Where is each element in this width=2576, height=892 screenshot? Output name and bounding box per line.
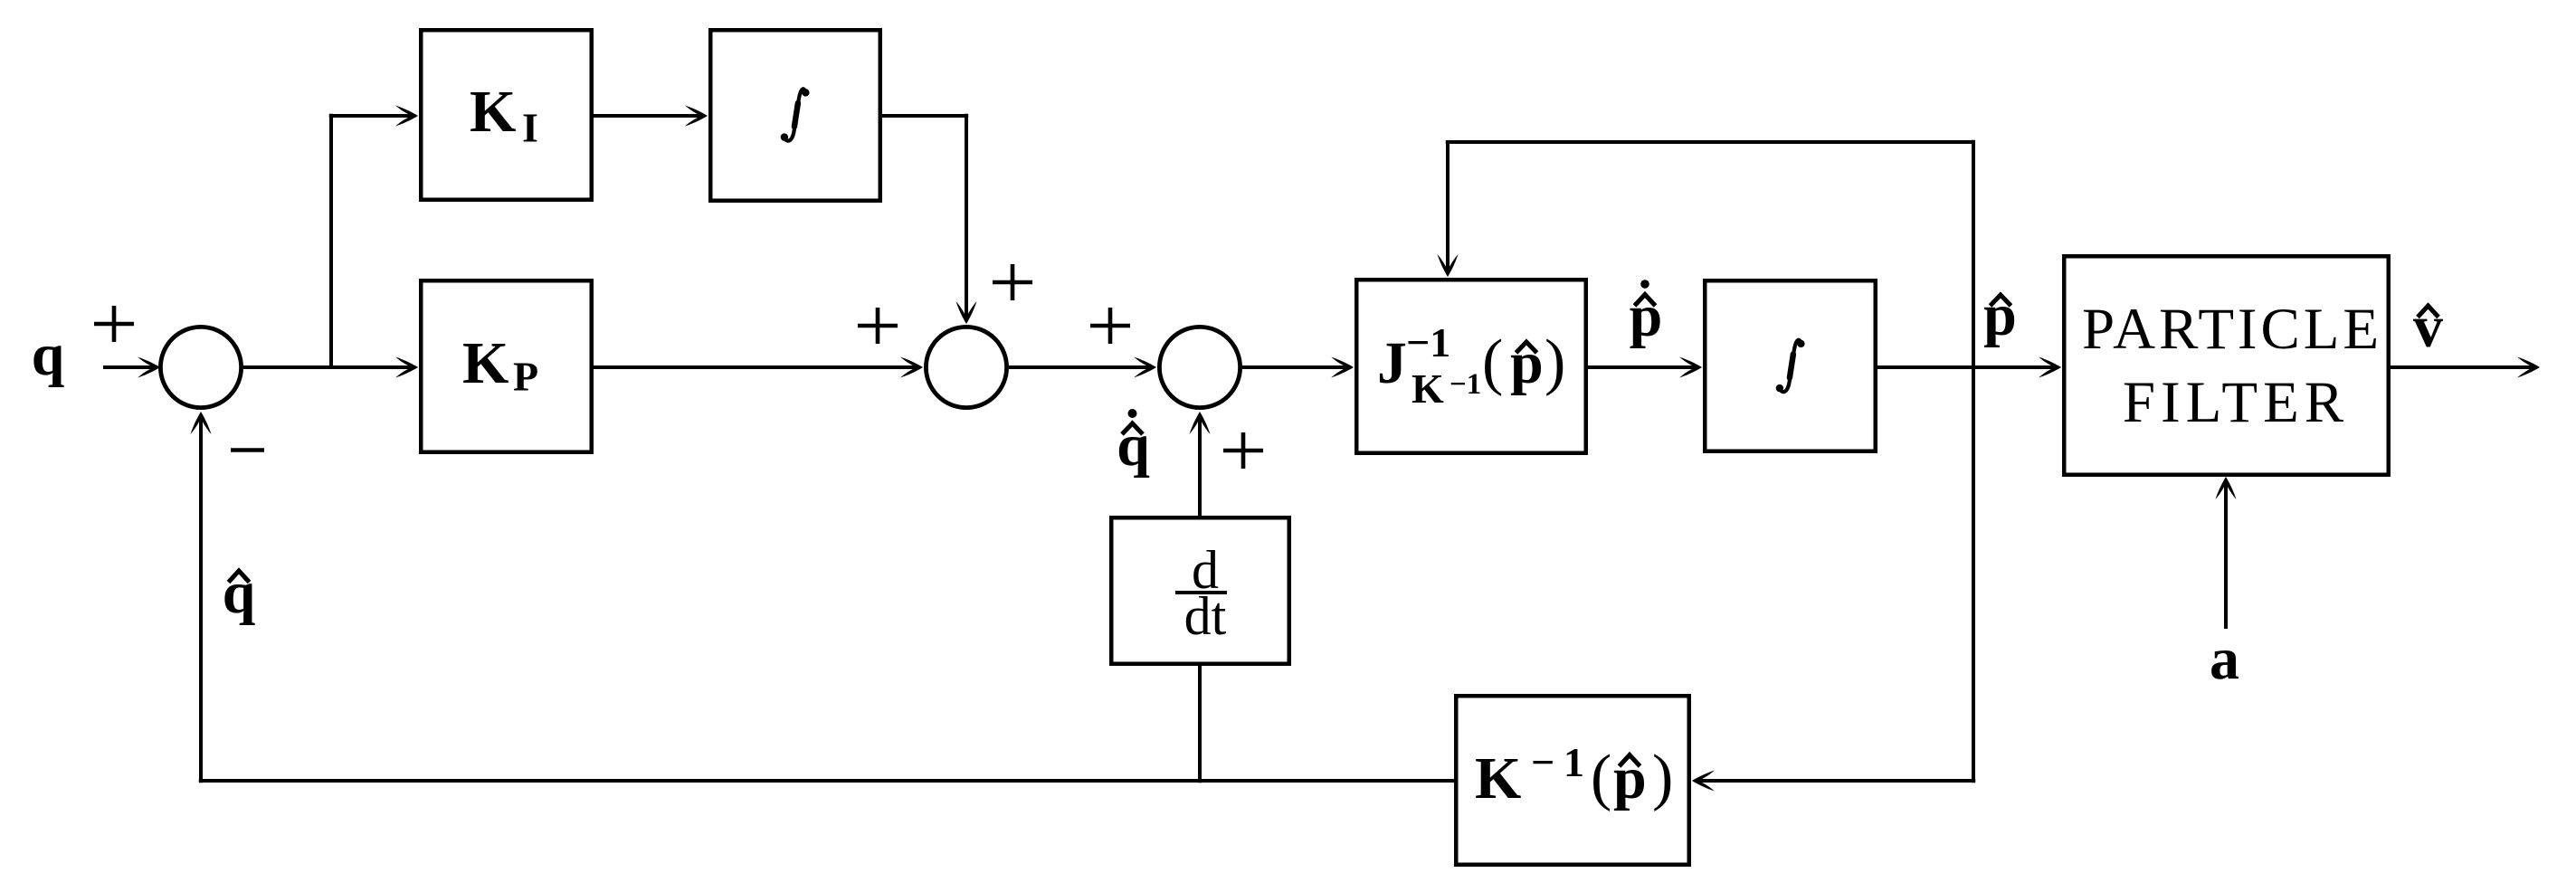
svg-text:FILTER: FILTER [2123, 370, 2349, 435]
wire branch up into ddt box [1198, 666, 1202, 783]
wire integrator1 output down to sum2 [965, 114, 968, 321]
box Kinv [1456, 696, 1689, 865]
arrowhead into sum3 bottom [1190, 412, 1211, 434]
arrowhead into sum2 top [956, 301, 977, 324]
label p-hat near feedback junction [1983, 282, 2017, 348]
svg-text:I: I [522, 105, 538, 151]
svg-text:1: 1 [1564, 739, 1584, 785]
plus sign at input [94, 306, 134, 342]
svg-text:−: − [1531, 739, 1554, 785]
arrowhead into sum1 [138, 357, 160, 378]
svg-text:J: J [1377, 330, 1407, 396]
wire Kinv output left [199, 779, 1454, 783]
wire a into particle filter bottom [2224, 479, 2228, 629]
wire integrator2 to particle filter [1877, 365, 2058, 369]
wire KP to sum2 [594, 365, 920, 369]
arrowhead into particle filter left [2039, 357, 2061, 378]
plus sign left of sum2 [858, 308, 898, 344]
wire feedback down into J top [1446, 142, 1450, 274]
box KI [421, 30, 592, 200]
wire feedback top horizontal [1446, 140, 1973, 144]
arrowhead into J left [1331, 357, 1354, 378]
label K inverse of p-hat [1475, 739, 1673, 812]
arrowhead into sum3 left [1134, 357, 1156, 378]
wire input q to sum1 [103, 365, 157, 369]
svg-text:dt: dt [1184, 586, 1227, 646]
arrowhead into KI [395, 106, 418, 127]
wire particle filter output [2391, 365, 2537, 369]
wire ddt box up to sum3 [1198, 414, 1202, 516]
label p-hat-dot between J and integrator2 [1630, 280, 1663, 349]
plus sign left of sum3 [1090, 308, 1130, 344]
svg-text:PARTICLE: PARTICLE [2082, 297, 2382, 362]
arrowhead into Kinv right [1692, 771, 1715, 792]
label v-hat output [2413, 294, 2443, 360]
label KP [462, 330, 538, 400]
box KP [421, 280, 592, 452]
wire into Kinv block from right [1695, 779, 1975, 783]
arrowhead into sum2 left [900, 357, 923, 378]
svg-text:(: ( [1482, 327, 1503, 397]
label J inverse K inverse of p-hat [1377, 319, 1565, 412]
plus sign below-right of sum3 [1223, 432, 1263, 469]
arrowhead into particle filter bottom [2216, 477, 2237, 499]
wire J block to integrator2 [1588, 365, 1699, 369]
svg-text:−1: −1 [1450, 368, 1481, 401]
arrowhead into KP [395, 357, 418, 378]
arrowhead into integrator2 [1679, 357, 1702, 378]
arrowhead into sum1 bottom [191, 412, 212, 434]
label d/dt fraction [1175, 540, 1227, 646]
label integral top [781, 89, 810, 141]
svg-text:P: P [513, 354, 538, 400]
svg-text:q: q [32, 322, 65, 388]
box J inverse [1356, 280, 1586, 453]
wire integrator1 output right [882, 114, 968, 118]
wire sum2 to sum3 [1009, 365, 1154, 369]
wire p-hat feedback vertical [1972, 140, 1975, 783]
plus sign above sum2 [993, 264, 1032, 300]
wire sum3 to J block [1242, 365, 1351, 369]
wire sum1 to KP [243, 365, 415, 369]
svg-text:K: K [470, 79, 516, 145]
box ddt [1111, 517, 1289, 664]
wire branch vertical up to KI path [329, 114, 333, 367]
wire KI to integrator1 [594, 114, 705, 118]
svg-text:): ) [1652, 743, 1673, 812]
svg-text:K: K [1412, 365, 1444, 412]
svg-text:a: a [2210, 626, 2239, 692]
label q-hat-dot at sum3 [1117, 409, 1150, 479]
svg-text:K: K [462, 330, 509, 396]
label KI [470, 79, 538, 151]
wire into KI [329, 114, 415, 118]
box particle filter [2064, 256, 2389, 475]
arrowhead into integrator1 [685, 106, 708, 127]
box integrator1 [710, 30, 880, 201]
wire bottom feedback up to sum1 [199, 414, 203, 783]
label q-hat feedback [223, 560, 256, 626]
label integral right [1776, 340, 1805, 393]
svg-text:K: K [1475, 745, 1521, 811]
summing junction 2 [926, 327, 1006, 407]
arrowhead output end [2517, 357, 2540, 378]
summing junction 3 [1159, 327, 1240, 407]
svg-text:−1: −1 [1406, 319, 1450, 365]
svg-text:): ) [1545, 327, 1565, 397]
summing junction 1 [160, 327, 241, 407]
box integrator2 [1705, 280, 1876, 451]
svg-text:(: ( [1591, 743, 1611, 812]
minus sign below sum1 [231, 448, 264, 452]
arrowhead into J top [1438, 254, 1459, 277]
